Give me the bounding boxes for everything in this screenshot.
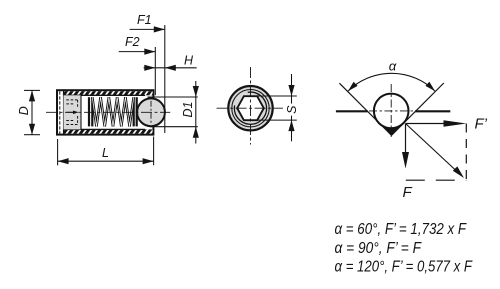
svg-text:α = 120°, F’ = 0,577 x F: α = 120°, F’ = 0,577 x F [335, 258, 474, 275]
svg-text:α = 90°, F’ = F: α = 90°, F’ = F [335, 240, 423, 257]
svg-text:D: D [17, 106, 31, 115]
v-groove right face [392, 83, 444, 135]
spring [88, 97, 90, 126]
force F vector [405, 124, 407, 155]
svg-text:D1: D1 [181, 102, 195, 118]
dimension D [17, 90, 40, 134]
svg-text:α: α [389, 58, 397, 73]
hex socket hidden lines [66, 100, 77, 125]
dashed construction bottom [406, 179, 467, 181]
hex socket pocket [64, 95, 82, 129]
surface line left [336, 110, 368, 112]
svg-text:α = 60°, F’ = 1,732 x F: α = 60°, F’ = 1,732 x F [335, 221, 468, 238]
dashed construction right [465, 124, 467, 181]
bore lines [64, 94, 146, 96]
groove tip fill [383, 127, 400, 136]
dimension D1 [148, 81, 199, 144]
ball in groove [374, 94, 409, 129]
svg-text:S: S [285, 105, 299, 114]
socket center arrow [67, 111, 74, 113]
F1 extension line [164, 25, 166, 133]
dimension L [58, 137, 154, 166]
v-groove left face [339, 83, 391, 135]
chamfer hidden line [59, 91, 61, 134]
left end face line [63, 90, 65, 134]
svg-text:H: H [184, 54, 194, 68]
svg-text:F1: F1 [137, 13, 152, 27]
dimension H [144, 54, 197, 71]
ball [137, 98, 165, 126]
dimension F1 [130, 13, 165, 33]
svg-text:F’: F’ [475, 116, 488, 133]
plunger body outline [57, 90, 153, 134]
ball center lines [369, 84, 414, 137]
hex socket [237, 96, 264, 120]
force F-prime vector [406, 123, 448, 125]
end view center lines [217, 67, 283, 145]
chamfer circle [232, 90, 269, 127]
dimension F2 [119, 35, 156, 55]
thread minor arc [234, 92, 266, 124]
angle arc alpha [348, 73, 435, 91]
ball vertical center line [150, 101, 152, 125]
svg-text:F: F [403, 184, 413, 201]
resultant diagonal [406, 124, 457, 172]
svg-text:L: L [102, 146, 109, 160]
F2 extension line [154, 47, 156, 95]
surface line right [415, 110, 450, 112]
end view body circle [228, 86, 272, 130]
svg-text:F2: F2 [125, 35, 140, 49]
plunger center line [46, 111, 170, 113]
dimension S [257, 74, 299, 141]
